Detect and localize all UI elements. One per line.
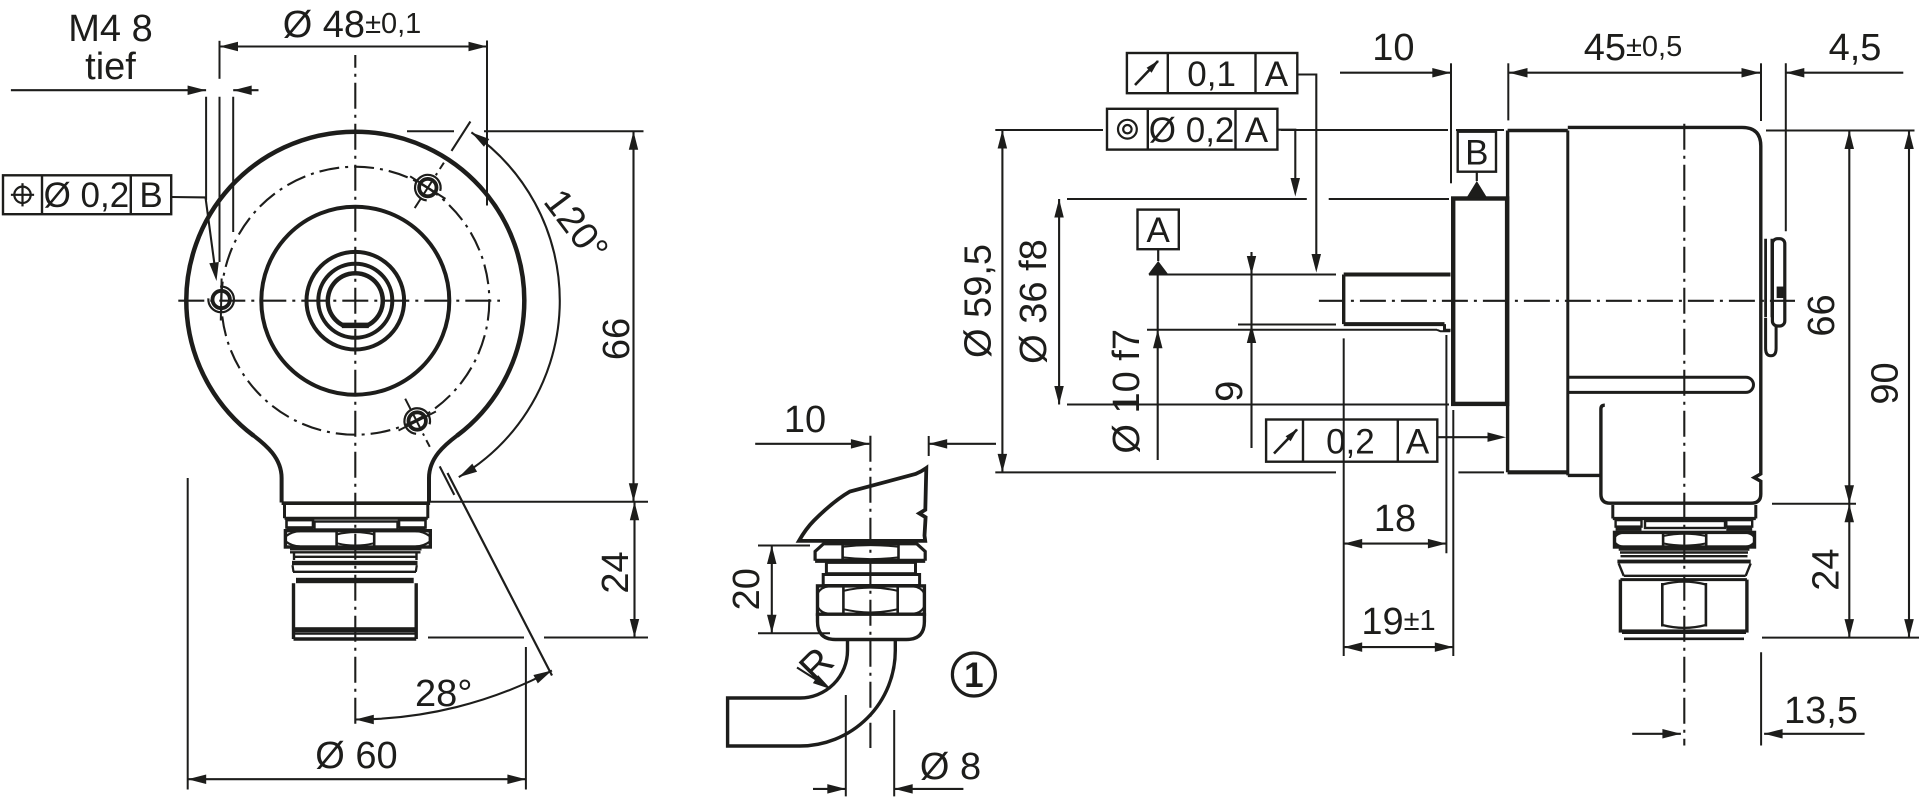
side connector hex sleeve	[1620, 580, 1747, 633]
front connector bayonet tab right	[399, 520, 426, 529]
flange collar Ø36	[1453, 199, 1507, 404]
dimension Ø59,5	[958, 130, 1008, 472]
gland cable support bell	[818, 613, 925, 639]
dimension Ø60	[188, 735, 526, 784]
extension line shaft step down	[1445, 335, 1447, 553]
dimension 120° arc	[459, 132, 560, 477]
position tolerance frame Ø0,2 B	[3, 175, 171, 215]
front connector thread band	[292, 561, 418, 565]
extension line body right down	[1760, 652, 1762, 745]
front connector coupling rim band	[296, 578, 414, 583]
front connector ring below nut	[290, 549, 422, 553]
side connector ring1	[1613, 505, 1756, 519]
dimension 20 gland	[726, 546, 777, 634]
svg-text:4,5: 4,5	[1829, 27, 1882, 69]
dimension 45 line	[1509, 68, 1760, 78]
dimension Ø36 f8	[1013, 199, 1064, 405]
position frame leader	[171, 197, 219, 281]
extension line shaft top	[1149, 274, 1336, 276]
extension line Ø48 right	[486, 41, 488, 206]
svg-text:10: 10	[784, 399, 826, 441]
front view outer body circle Ø60	[186, 132, 524, 436]
datum A box	[1138, 210, 1179, 250]
120° arc end stub top	[452, 122, 471, 151]
front connector thread line	[294, 552, 417, 560]
housing cut-away outline	[799, 468, 926, 541]
svg-text:13,5: 13,5	[1784, 690, 1858, 732]
tolerance frame concentricity Ø0,2 A	[1107, 109, 1277, 150]
svg-text:19±1: 19±1	[1361, 601, 1435, 643]
svg-text:Ø 8: Ø 8	[920, 746, 981, 788]
mounting hole M4 top right	[410, 163, 445, 208]
front view horizontal centerline	[178, 300, 500, 302]
extension line shaft root	[1147, 330, 1450, 332]
extension line Ø36 top	[1067, 198, 1449, 200]
extension line front top	[407, 130, 644, 132]
svg-text:24: 24	[1806, 548, 1848, 590]
dimension 13,5	[1632, 690, 1864, 739]
svg-text:A: A	[1147, 211, 1171, 250]
svg-text:28°: 28°	[415, 673, 472, 715]
extension line Ø36 bottom	[1067, 404, 1449, 406]
front view shaft circle Ø10 with flat	[328, 273, 383, 325]
dimension 120° text	[535, 182, 616, 270]
svg-text:Ø 36 f8: Ø 36 f8	[1013, 239, 1055, 364]
front view neck left contour	[253, 435, 281, 502]
side connector middle band	[1645, 521, 1725, 528]
extension line Ø59,5 bottom	[995, 471, 1504, 473]
extension line shaft end down	[1343, 338, 1345, 656]
front view flange collar circle	[261, 207, 449, 395]
dimension 10 side text	[1372, 27, 1414, 69]
balloon 1	[952, 653, 995, 696]
cable outline	[728, 640, 896, 747]
front view hub circle	[307, 252, 405, 350]
dimension 24 side	[1806, 504, 1855, 638]
gland housing edge extension	[928, 436, 930, 456]
extension line Ø59,5 top	[995, 129, 1504, 131]
front connector bottom line	[295, 632, 416, 634]
gland top hex ring	[815, 544, 925, 561]
svg-text:tief: tief	[85, 46, 136, 88]
frame 0,1 leader	[1297, 75, 1321, 273]
extension line Ø48 left	[219, 41, 221, 79]
svg-text:120°: 120°	[535, 182, 616, 270]
side connector tab left	[1616, 520, 1642, 529]
extension line front connector bottom	[428, 637, 648, 639]
svg-text:M4 8: M4 8	[68, 8, 152, 50]
side connector tab right	[1726, 520, 1752, 529]
front view vertical centerline	[354, 55, 356, 724]
svg-text:18: 18	[1374, 498, 1416, 540]
dimension 45±0,5 text	[1584, 27, 1683, 69]
extension line body top right	[1766, 130, 1915, 132]
bezel separation line	[1566, 131, 1569, 476]
extension line body right up	[1760, 63, 1762, 121]
mounting hole M4 bottom right	[399, 399, 436, 447]
svg-text:Ø 59,5: Ø 59,5	[958, 244, 1000, 358]
svg-text:9: 9	[1209, 381, 1251, 402]
extension line Ø60 left	[187, 478, 189, 790]
dimension 28° arc	[355, 671, 552, 725]
front connector ring1 bottom line	[285, 517, 428, 520]
dimension Ø48±0,1 text	[283, 4, 422, 46]
svg-text:10: 10	[1372, 27, 1414, 69]
dimension 18	[1344, 498, 1447, 548]
side connector bottom edge	[1624, 637, 1744, 640]
dimension 28° text	[415, 673, 472, 715]
bezel bottom edge	[1508, 470, 1568, 474]
front connector middle band	[315, 522, 398, 530]
svg-text:66: 66	[1801, 294, 1843, 336]
gland locknut ring	[826, 562, 915, 573]
dimension 10 gland text	[784, 399, 826, 441]
svg-text:Ø 48±0,1: Ø 48±0,1	[283, 4, 422, 46]
front connector ring1 sides	[285, 503, 428, 518]
dimension 10 side line	[1340, 68, 1451, 78]
svg-text:Ø 0,2: Ø 0,2	[44, 176, 130, 215]
connector cap	[1766, 239, 1785, 356]
extension line flange face down	[1452, 410, 1454, 656]
dimension Ø48 line	[220, 42, 488, 51]
bezel top edge	[1508, 129, 1568, 132]
front connector thread line2	[293, 565, 417, 572]
front view neck right contour	[429, 435, 457, 502]
gland centerline	[869, 436, 871, 748]
28° reference slant line	[448, 473, 553, 676]
front connector bayonet tab left	[287, 520, 314, 529]
gland washer ring	[823, 575, 919, 586]
120° arc end stub bottom	[440, 466, 455, 495]
datum B triangle	[1467, 172, 1487, 198]
svg-text:1: 1	[964, 656, 983, 695]
svg-text:45±0,5: 45±0,5	[1584, 27, 1683, 69]
dimension 4,5 text	[1829, 27, 1882, 69]
front view bolt circle Ø48 (dash-dot)	[221, 167, 489, 435]
svg-text:Ø 60: Ø 60	[315, 735, 397, 777]
svg-text:20: 20	[726, 568, 768, 610]
frame 0,2 leader	[1437, 432, 1506, 442]
dimension Ø8	[813, 746, 981, 794]
dimension 4,5 line	[1786, 68, 1904, 78]
extension line cap right	[1785, 63, 1787, 231]
svg-text:A: A	[1245, 111, 1269, 150]
svg-text:A: A	[1406, 423, 1430, 462]
svg-text:0,2: 0,2	[1326, 423, 1375, 462]
svg-text:A: A	[1265, 55, 1289, 94]
tolerance frame runout 0,1 A	[1127, 53, 1297, 94]
tolerance frame runout 0,2 A	[1266, 420, 1437, 462]
dimension 66 front	[596, 131, 638, 502]
dimension 24 front	[595, 502, 639, 638]
dimension 9	[1209, 252, 1256, 448]
dimension 19±1	[1344, 601, 1454, 652]
housing label slot	[1568, 377, 1754, 392]
svg-text:66: 66	[596, 318, 638, 360]
svg-text:B: B	[1465, 134, 1488, 173]
dimension Ø10 f7	[1106, 275, 1163, 461]
side connector thread line	[1621, 555, 1748, 557]
front connector bottom edge	[294, 637, 417, 640]
dimension Ø8 extensions	[846, 695, 894, 796]
svg-text:Ø 10 f7: Ø 10 f7	[1106, 329, 1148, 454]
housing body outline	[1568, 127, 1761, 503]
extension line connector end right	[1762, 637, 1919, 639]
gland hex nut	[818, 586, 925, 614]
side view connector centerline	[1683, 118, 1685, 746]
extension line Ø60 right	[525, 647, 527, 790]
svg-text:90: 90	[1865, 362, 1907, 404]
svg-text:B: B	[139, 176, 162, 215]
M4 leader line	[11, 86, 259, 96]
side connector hex nut	[1615, 532, 1755, 547]
dimension 90 side	[1865, 131, 1914, 638]
side connector bottom band	[1622, 629, 1746, 634]
svg-text:Ø 0,2: Ø 0,2	[1149, 111, 1235, 150]
extension lines 20 gland	[758, 546, 830, 634]
datum A triangle	[1148, 249, 1168, 274]
housing bottom step	[1568, 474, 1601, 477]
side connector ring below nut	[1619, 549, 1750, 553]
front connector top edge	[282, 501, 431, 505]
front view shaft collar circle	[318, 264, 392, 338]
extension line front face up	[1507, 63, 1509, 120]
extension line shaft flat	[1238, 324, 1336, 326]
front connector hex nut outline	[285, 531, 430, 547]
side connector taper	[1619, 563, 1751, 575]
front connector sleeve bottom band	[295, 627, 416, 632]
frame Ø0,2 leader	[1277, 130, 1300, 197]
label M4 8 tief	[68, 8, 152, 88]
M4 hole extension lines	[206, 97, 233, 262]
svg-text:24: 24	[595, 551, 637, 593]
side view horizontal centerline	[1319, 300, 1795, 302]
shaft outline	[1344, 275, 1451, 331]
svg-text:0,1: 0,1	[1187, 55, 1236, 94]
dimension 10 gland line	[755, 439, 996, 449]
extension line flange face up	[1450, 63, 1452, 183]
front connector sleeve sides	[294, 583, 417, 639]
front connector hex nut facets	[285, 531, 430, 547]
dimension 66 side	[1801, 131, 1854, 504]
housing front face	[1506, 131, 1509, 473]
mounting hole M4 left	[208, 279, 234, 321]
side connector thread band	[1617, 560, 1750, 564]
extension line front connector top	[427, 501, 648, 503]
datum B box	[1458, 132, 1496, 173]
bend radius R label	[791, 639, 843, 691]
extension line connector block bottom	[1772, 503, 1856, 505]
